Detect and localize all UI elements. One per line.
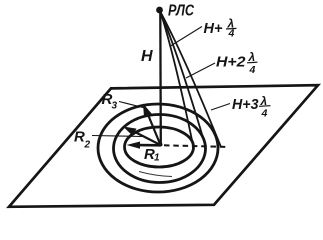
svg-text:H+: H+ — [204, 21, 223, 37]
radius arrow R3 (to outer ellipse top-left) — [147, 111, 161, 145]
dashed axis line to the right — [164, 145, 229, 147]
svg-text:R: R — [74, 129, 85, 146]
svg-text:4: 4 — [249, 64, 256, 76]
svg-text:H+3: H+3 — [232, 97, 259, 113]
svg-text:H: H — [141, 48, 153, 65]
svg-text:1: 1 — [154, 153, 160, 164]
leader line for H+3lambda/4 — [211, 104, 230, 111]
svg-text:РЛС: РЛС — [168, 3, 194, 20]
Fresnel zone ellipse R3 (outer) — [98, 104, 218, 192]
Fresnel zone ellipse R2 (middle) — [114, 115, 206, 183]
slant ray H+3lambda/4 to R3 edge — [161, 12, 222, 147]
leader line for H+lambda/4 — [171, 27, 203, 47]
leader line for R3 — [119, 102, 145, 109]
svg-text:H+2: H+2 — [216, 55, 246, 71]
thin sketch stroke below R1 — [139, 172, 172, 177]
leader line for R2 — [92, 136, 143, 137]
svg-text:4: 4 — [228, 28, 235, 40]
svg-text:2: 2 — [84, 140, 91, 151]
leader line for H+2lambda/4 — [186, 63, 215, 78]
svg-text:3: 3 — [112, 101, 118, 112]
ground plane parallelogram — [9, 85, 318, 207]
svg-text:4: 4 — [261, 108, 268, 120]
slant ray H+2lambda/4 to R2 edge — [161, 12, 206, 146]
radius arrow R1 (horizontal, pointing left) — [138, 144, 161, 147]
radar point РЛС — [156, 7, 163, 14]
wire H vertical from radar to plane center — [159, 12, 162, 145]
center junction node — [159, 143, 163, 147]
Fresnel zone ellipse R1 (inner) — [125, 127, 194, 167]
slant ray H+lambda/4 to R1 edge — [161, 12, 194, 145]
radius arrow R2 (to middle ellipse upper-left) — [132, 131, 161, 146]
